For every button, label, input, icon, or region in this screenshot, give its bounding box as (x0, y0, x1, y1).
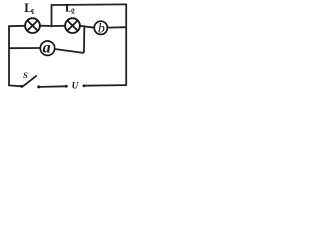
wire L1 to node J1 (40, 25, 52, 27)
meter a (40, 39, 54, 56)
meter b (94, 21, 107, 36)
wire node J2 drop to ammeter branch (83, 26, 84, 52)
wire bottom: switch to source terminal (40, 85, 66, 88)
wire bottom: left corner to switch (9, 84, 21, 87)
wire top rail (52, 3, 127, 6)
svg-text:U: U (72, 80, 80, 90)
wire node J1 riser (51, 5, 53, 27)
lamp L1 (25, 18, 40, 33)
wire L2 to node J2 to meter b (80, 26, 94, 28)
source terminal right dot (83, 84, 86, 87)
svg-text:S: S (23, 70, 28, 80)
source terminal left dot (65, 85, 68, 88)
wire bottom: source terminal to right corner (84, 84, 126, 87)
lamp L2 (65, 18, 80, 33)
switch S (20, 76, 40, 89)
wire top row: left rail to lamp L1 (9, 25, 25, 27)
svg-text:1: 1 (31, 8, 35, 16)
wire left vertical rail (8, 26, 10, 85)
wire right vertical rail (125, 4, 127, 85)
svg-text:2: 2 (71, 8, 75, 16)
wire a-branch: meter a to J2 drop (55, 49, 84, 53)
wire J1 to lamp L2 (52, 25, 66, 27)
svg-text:a: a (43, 39, 51, 56)
wire a-branch: left rail to meter a (9, 47, 40, 49)
wire meter b to right rail (107, 26, 126, 28)
svg-text:b: b (98, 21, 105, 36)
